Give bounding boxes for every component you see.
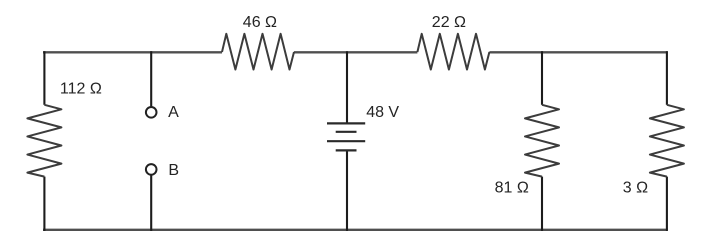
svg-text:B: B: [168, 162, 179, 179]
svg-text:A: A: [168, 104, 179, 121]
svg-text:3 Ω: 3 Ω: [623, 179, 648, 196]
svg-text:81 Ω: 81 Ω: [495, 179, 529, 196]
svg-text:22 Ω: 22 Ω: [432, 14, 466, 31]
svg-text:46 Ω: 46 Ω: [243, 14, 277, 31]
svg-text:48 V: 48 V: [366, 104, 399, 121]
svg-text:112 Ω: 112 Ω: [60, 80, 102, 97]
